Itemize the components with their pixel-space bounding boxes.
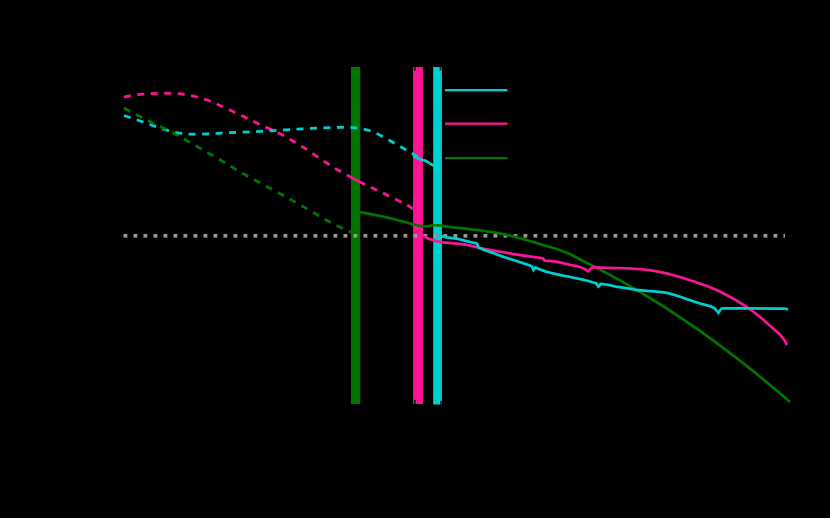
dashed pink remnant over green bar [352, 178, 361, 183]
solid deeppink curve [418, 230, 787, 345]
darkturquoise vertical bar [433, 67, 442, 405]
dark error-cap notch, bottom of darkturquoise bar [440, 401, 442, 405]
dark error-cap notch, top of deeppink bar [414, 67, 416, 71]
dashed deeppink curve [124, 93, 416, 211]
solid darkturquoise curve [437, 234, 788, 313]
green vertical bar [351, 67, 360, 404]
solid green curve [356, 212, 790, 403]
dashed green curve [124, 108, 352, 233]
legend deeppink line [445, 123, 508, 125]
gray dotted threshold line [124, 234, 786, 238]
legend green line [445, 157, 508, 159]
legend darkturquoise line [445, 89, 508, 91]
dark error-cap notch, bottom of deeppink bar [414, 400, 416, 404]
dark error-cap notch, top of darkturquoise bar [440, 67, 442, 71]
deeppink vertical bar [413, 67, 423, 404]
dashed cyan remnant over magenta bar [413, 156, 423, 160]
dashed darkturquoise curve [124, 116, 436, 167]
